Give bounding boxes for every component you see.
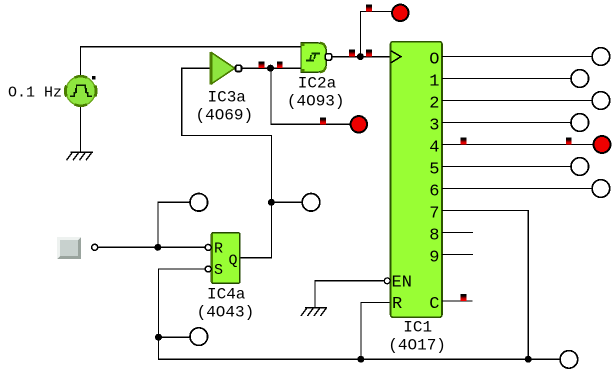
- node junction S-branch: [155, 334, 162, 341]
- marker pin state outC: [461, 294, 467, 301]
- nand IC2a: [301, 43, 332, 72]
- wire junction up to LED1: [360, 11, 392, 56]
- ground GND1 (generator): [67, 152, 93, 160]
- wire out0: [442, 56, 592, 58]
- svg-text:IC4a: IC4a: [207, 285, 246, 303]
- probe circle B: [302, 194, 320, 212]
- wire IC3a input feedback: [182, 68, 272, 258]
- probe circle C: [190, 328, 208, 346]
- wire IC2a out to IC1 clock: [332, 56, 391, 58]
- svg-text:9: 9: [429, 249, 439, 268]
- svg-text:IC1: IC1: [403, 319, 432, 337]
- svg-text:(4O43): (4O43): [197, 303, 255, 321]
- svg-text:(4O69): (4O69): [196, 107, 254, 125]
- wire IC3a output to IC2a lower input: [242, 67, 301, 69]
- wire branch to probe B: [271, 201, 302, 203]
- probe circle out1: [571, 70, 589, 88]
- svg-text:1: 1: [429, 73, 439, 92]
- wire out9 stub: [442, 254, 473, 256]
- wire out3: [442, 122, 571, 124]
- LED L2: [351, 116, 367, 132]
- svg-text:Q: Q: [229, 252, 238, 269]
- wire IC1 R to bottom bus: [361, 302, 391, 359]
- wire button to R input: [98, 246, 206, 248]
- wire generator to ground: [80, 107, 82, 153]
- svg-text:C: C: [429, 295, 439, 314]
- wire branch to probe C: [159, 336, 191, 338]
- wire EN to ground: [315, 281, 384, 308]
- LED out4: [594, 136, 611, 153]
- svg-text:IC3a: IC3a: [208, 89, 247, 107]
- inverter IC3a: [211, 52, 242, 85]
- svg-text:(4O93): (4O93): [287, 93, 345, 111]
- wire out8 stub: [442, 232, 473, 234]
- svg-text:4: 4: [429, 139, 439, 158]
- generator VG1 0.1 Hz: [65, 76, 96, 106]
- wire out5: [442, 166, 571, 168]
- open pin circle: [92, 244, 98, 250]
- node junction IC3a out: [267, 65, 274, 72]
- probe circle A: [190, 194, 208, 212]
- latch IC4a: [205, 233, 240, 283]
- node junction clock: [357, 53, 364, 60]
- marker pin state: [349, 50, 355, 57]
- svg-text:R: R: [392, 295, 402, 314]
- svg-text:S: S: [214, 262, 223, 279]
- svg-text:3: 3: [429, 117, 439, 136]
- svg-text:R: R: [214, 241, 223, 258]
- wire out7 to bottom bus: [442, 211, 528, 360]
- marker pin state: [259, 61, 265, 68]
- wire out4: [442, 144, 593, 146]
- svg-text:(4O17): (4O17): [388, 337, 446, 355]
- marker pin state LED2: [320, 117, 326, 124]
- node junction R: [154, 244, 161, 251]
- svg-text:7: 7: [429, 205, 439, 224]
- probe circle out2: [592, 92, 610, 110]
- wire junction up to probe A: [158, 202, 190, 247]
- probe circle D: [560, 351, 578, 369]
- marker pin state out4 a: [461, 138, 467, 145]
- probe circle out0: [592, 48, 610, 66]
- pin number labels 0-9 and C of IC1: [429, 51, 439, 315]
- wire S to bottom bus: [159, 269, 561, 359]
- ground GND2 (EN): [301, 308, 327, 316]
- svg-text:2: 2: [429, 95, 439, 114]
- probe circle out3: [571, 114, 589, 132]
- counter IC1 4017: [384, 42, 442, 318]
- svg-text:8: 8: [429, 227, 439, 246]
- wire top bus generator to IC2a: [81, 47, 302, 76]
- svg-text:EN: EN: [392, 274, 412, 293]
- node junction bottom-7: [525, 356, 532, 363]
- svg-text:5: 5: [429, 161, 439, 180]
- marker pin state: [277, 61, 283, 68]
- marker pin state: [366, 50, 372, 57]
- svg-text:6: 6: [429, 183, 439, 202]
- marker pin state out4 b: [566, 138, 572, 145]
- svg-text:O.1 Hz: O.1 Hz: [8, 85, 62, 102]
- LED L1: [392, 5, 408, 21]
- wire junction down to LED2: [271, 68, 351, 124]
- svg-text:O: O: [429, 51, 439, 70]
- probe circle out5: [571, 158, 589, 176]
- wire out2: [442, 100, 592, 102]
- wire outC stub: [442, 300, 472, 302]
- svg-text:IC2a: IC2a: [298, 75, 337, 93]
- probe circle out6: [592, 180, 610, 198]
- node junction bottom-R: [357, 356, 364, 363]
- node junction Q-feedback: [268, 199, 275, 206]
- marker pin state LED1: [366, 5, 372, 12]
- button SW: [57, 237, 81, 259]
- wire out1: [442, 78, 571, 80]
- wire out6: [442, 188, 592, 190]
